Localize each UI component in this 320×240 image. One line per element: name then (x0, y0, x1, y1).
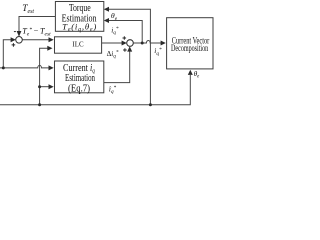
svg-text:îq*: îq* (109, 84, 117, 95)
svg-text:Te* − Test: Te* − Test (22, 27, 51, 38)
svg-text:iq*: iq* (111, 25, 119, 36)
svg-text:(Eq.7): (Eq.7) (68, 83, 90, 94)
svg-text:Δiq*: Δiq* (107, 50, 119, 60)
svg-text:Test: Test (22, 4, 34, 15)
svg-text:Torque: Torque (69, 3, 91, 14)
svg-text:ILC: ILC (72, 40, 83, 49)
svg-text:θe: θe (194, 69, 200, 80)
svg-text:Decomposition: Decomposition (171, 43, 208, 54)
svg-text:iq*: iq* (154, 46, 162, 57)
